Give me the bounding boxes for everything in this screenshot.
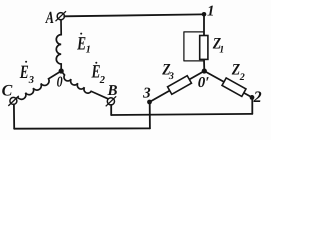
svg-text:0′: 0′: [198, 75, 210, 91]
svg-text:2: 2: [253, 89, 262, 106]
terminal C: [8, 96, 18, 106]
label E1: [76, 33, 90, 56]
wire node 2 down: [251, 97, 253, 114]
impedance Z2: [222, 62, 246, 97]
node 0' (load star point): [202, 68, 207, 73]
winding E1 (phase A emf): [56, 20, 61, 71]
svg-text:1: 1: [207, 4, 215, 20]
node O (generator star point): [59, 68, 64, 73]
svg-text:3: 3: [142, 86, 151, 102]
svg-text:2: 2: [239, 72, 245, 83]
winding E3 (phase C emf): [16, 71, 61, 99]
wire Z1 bottom to node 0': [203, 59, 205, 71]
terminal A: [56, 11, 67, 21]
svg-text:B: B: [106, 83, 117, 99]
label E2: [91, 62, 106, 86]
wire B to node 2 (middle line): [111, 114, 252, 115]
svg-text:C: C: [2, 83, 13, 100]
wire A to node 1 (top line): [64, 14, 202, 16]
svg-text:3: 3: [28, 75, 34, 86]
wire C down: [13, 104, 15, 128]
node 2: [250, 95, 255, 100]
svg-text:0: 0: [57, 75, 63, 91]
short-circuit bracket around Z1: [184, 32, 204, 61]
svg-text:A: A: [45, 8, 54, 27]
node 3: [147, 100, 152, 105]
wire B down: [110, 105, 112, 115]
svg-text:3: 3: [168, 71, 174, 82]
node 1: [202, 12, 207, 17]
wire node 0' diagonal to node 2: [204, 71, 252, 97]
svg-text:1: 1: [219, 45, 224, 56]
svg-text:2: 2: [99, 75, 106, 86]
impedance Z1: [200, 36, 225, 60]
wire node 3 down: [149, 102, 151, 128]
wire node 3 diagonal to node 0': [150, 71, 205, 102]
winding E2 (phase B emf): [61, 71, 108, 99]
label E3: [19, 61, 34, 86]
svg-text:E: E: [19, 62, 29, 83]
terminal B: [106, 96, 117, 106]
wire node 1 down to Z1: [203, 14, 205, 36]
svg-text:1: 1: [86, 45, 91, 56]
wire C to node 3 (bottom line): [14, 127, 150, 129]
impedance Z3: [161, 61, 191, 94]
